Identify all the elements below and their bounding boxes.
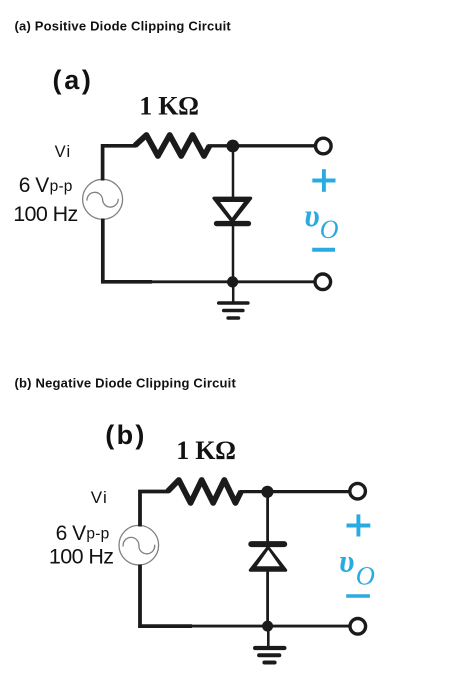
svg-text:1 KΩ: 1 KΩ (176, 436, 235, 465)
node: bottom junction dot (circuit a) (227, 276, 238, 287)
label - output polarity (circuit a) (312, 248, 335, 252)
svg-text:(a): (a) (53, 65, 94, 95)
svg-text:1 KΩ: 1 KΩ (139, 92, 198, 121)
label - output polarity (circuit b) (346, 594, 370, 598)
svg-text:υ: υ (304, 198, 319, 233)
svg-text:υ: υ (339, 544, 354, 579)
terminal: top output (circuit b) (350, 483, 366, 499)
ground (circuit a) (219, 284, 248, 318)
diode D1 (circuit a, anode up) (214, 198, 251, 223)
resistor R2 1 KΩ (circuit b) (168, 480, 241, 503)
wire: source top to resistor (circuit b) (140, 492, 169, 527)
wire: source bottom to bottom rail (circuit a) (103, 219, 152, 282)
svg-text:(b): (b) (105, 420, 146, 450)
node: top junction dot (circuit a) (226, 140, 239, 153)
svg-text:O: O (356, 561, 375, 591)
wire: resistor to output terminal (circuit b) (240, 490, 351, 493)
svg-text:(b) Negative Diode Clipping Ci: (b) Negative Diode Clipping Circuit (15, 376, 237, 391)
AC source V2 (circuit b) (119, 525, 159, 565)
terminal: top output (circuit a) (316, 138, 332, 154)
wire: node to diode (circuit b) (266, 492, 269, 542)
wire: node to diode (circuit a) (232, 146, 235, 199)
svg-text:100 Hz: 100 Hz (49, 545, 114, 569)
svg-text:6 Vp-p: 6 Vp-p (56, 522, 110, 545)
label + output polarity (circuit b) (347, 514, 371, 536)
diode D2 (circuit b, cathode up) (250, 544, 285, 570)
label vO output voltage (circuit b) (339, 544, 375, 591)
wire: resistor to output terminal (circuit a) (208, 144, 316, 147)
node: top junction dot (circuit b) (261, 486, 273, 498)
svg-text:100 Hz: 100 Hz (13, 202, 78, 226)
svg-text:O: O (320, 215, 339, 244)
svg-text:Vi: Vi (91, 488, 108, 507)
node: bottom junction dot (circuit b) (262, 621, 273, 632)
label vO output voltage (circuit a) (304, 198, 339, 244)
wire: diode to bottom node (circuit a) (232, 221, 235, 282)
resistor R1 1 KΩ (circuit a) (135, 135, 210, 156)
wire: bottom rail to bottom terminal (circuit a) (150, 280, 315, 283)
ground (circuit b) (255, 628, 284, 663)
wire: diode to bottom node (circuit b) (266, 568, 269, 626)
wire: bottom rail to bottom terminal (circuit b) (190, 625, 350, 628)
label + output polarity (circuit a) (312, 169, 335, 192)
svg-text:Vi: Vi (55, 143, 72, 161)
AC source V1 (circuit a) (83, 179, 123, 219)
terminal: bottom output (circuit a) (315, 274, 331, 290)
terminal: bottom output (circuit b) (350, 619, 366, 635)
svg-text:6 Vp-p: 6 Vp-p (19, 174, 73, 197)
wire: source top to resistor (circuit a) (103, 146, 136, 181)
svg-text:(a) Positive Diode Clipping Ci: (a) Positive Diode Clipping Circuit (15, 19, 232, 34)
wire: source bottom to bottom rail (circuit b) (140, 565, 192, 627)
